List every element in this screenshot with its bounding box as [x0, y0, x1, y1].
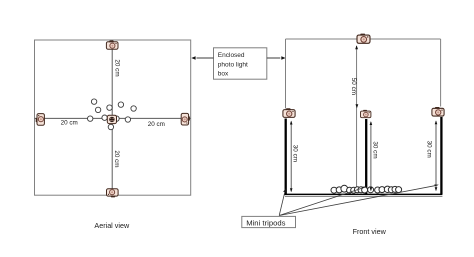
svg-text:30 cm: 30 cm [425, 141, 432, 158]
svg-text:50 cm: 50 cm [350, 78, 357, 95]
svg-text:20 cm: 20 cm [148, 121, 165, 128]
svg-text:Front view: Front view [353, 227, 387, 236]
svg-text:20 cm: 20 cm [61, 120, 78, 127]
svg-text:photo light: photo light [218, 61, 248, 68]
svg-text:Aerial view: Aerial view [94, 221, 130, 230]
svg-text:20 cm: 20 cm [113, 150, 120, 167]
svg-text:20 cm: 20 cm [114, 59, 121, 76]
svg-text:30 cm: 30 cm [292, 145, 299, 162]
svg-text:Enclosed: Enclosed [218, 52, 245, 59]
svg-text:30 cm: 30 cm [371, 141, 378, 158]
svg-text:Mini tripods: Mini tripods [246, 218, 285, 227]
svg-text:box: box [218, 70, 229, 77]
